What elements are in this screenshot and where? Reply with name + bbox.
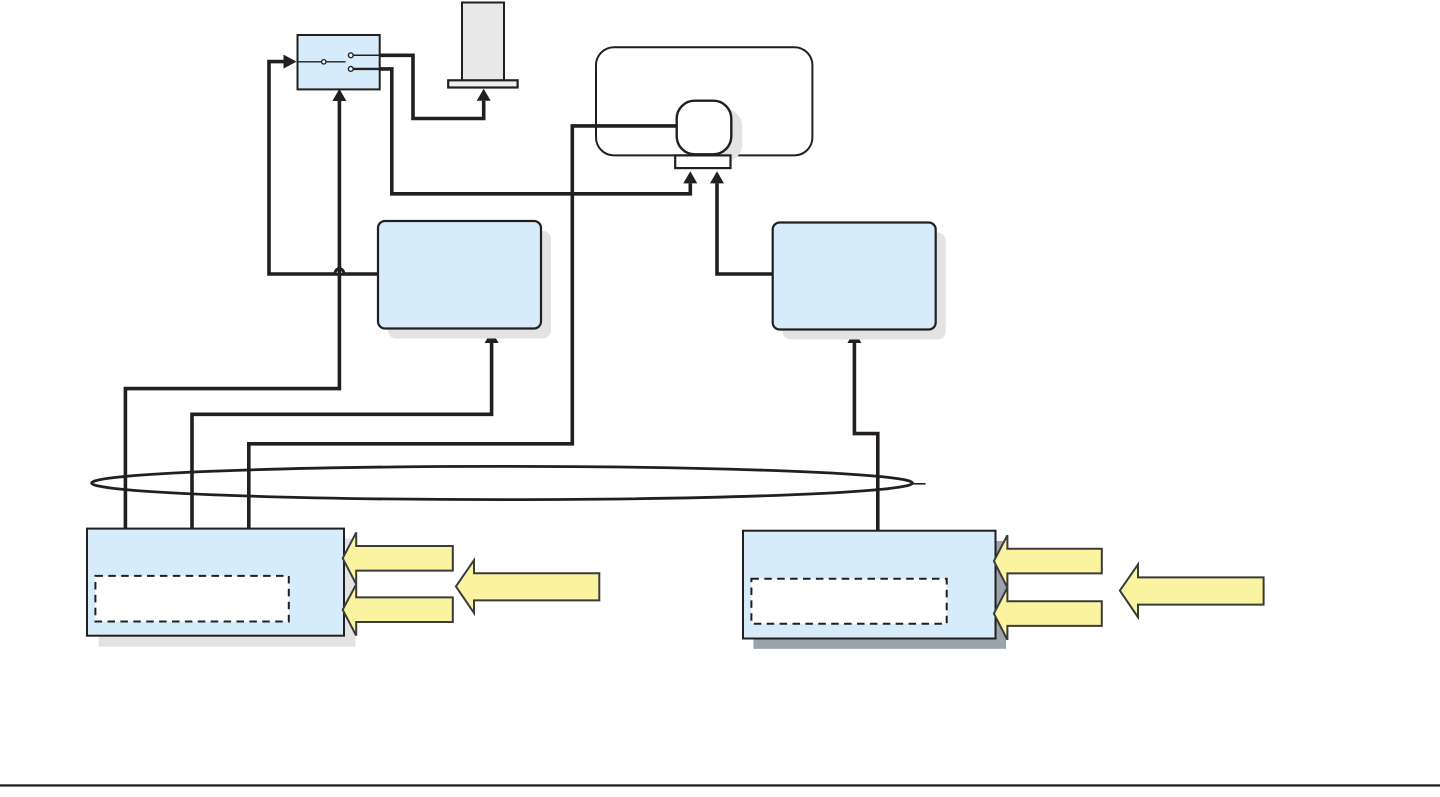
ECU1 dashed label box [95, 576, 288, 622]
wire hop over feedback wire [335, 269, 343, 273]
ECU1 box [87, 529, 344, 636]
yellow input arrow ECU2 upper [994, 535, 1102, 587]
relay upper contact lead [353, 54, 379, 56]
ECU2 dashed label box [751, 579, 946, 624]
bus stub line at right tip [912, 483, 926, 485]
arrowhead into motor base left [683, 171, 697, 183]
wire: ECU1 pin2 up to control unit A [192, 343, 492, 530]
wire: relay lower contact to motor base (left pin) [380, 69, 691, 194]
ECU2 shadow [754, 541, 1007, 649]
arrowhead into heater pedestal [477, 89, 491, 101]
relay box [298, 35, 380, 89]
yellow input arrow ECU1 long [456, 560, 599, 613]
ECU1 shadow [99, 539, 356, 647]
arrowhead into control unit B bottom [847, 331, 861, 343]
relay lower contact circle [348, 67, 353, 72]
heater element (grey tower) [462, 3, 504, 81]
wire: control unit A to relay (feedback loop) [269, 62, 378, 274]
arrowhead into relay left side [284, 55, 297, 69]
ECU2 box [743, 531, 996, 639]
relay lower contact lead [353, 68, 379, 70]
motor (round actuator) [677, 101, 732, 155]
appliance housing (rounded enclosure) [596, 47, 812, 155]
motor shadow [688, 109, 743, 163]
data bus (ellipse) [92, 466, 913, 499]
bottom page rule [0, 784, 1440, 786]
motor base plate [675, 155, 730, 168]
relay pole pivot circle [322, 60, 326, 64]
wire: ECU1 pin1 up to relay coil [125, 101, 339, 530]
heater pedestal [448, 80, 517, 87]
wire: relay upper contact to heater pedestal [380, 55, 484, 118]
yellow input arrow ECU2 lower [994, 588, 1102, 640]
control unit B [773, 223, 936, 330]
control unit A [378, 221, 541, 329]
relay pole line [298, 61, 346, 63]
arrowhead into control unit A bottom [485, 331, 499, 343]
control unit A shadow [388, 231, 551, 339]
wire segment through hop [338, 267, 342, 277]
yellow input arrow ECU1 lower [343, 584, 453, 635]
control unit B shadow [783, 233, 946, 340]
yellow input arrow ECU2 long [1120, 564, 1264, 617]
arrowhead into motor base right [710, 171, 724, 183]
wire: control unit B to motor base (right pin) [717, 183, 773, 274]
relay upper contact circle [348, 53, 353, 58]
wire: ECU1 pin3 up and over to motor [249, 126, 677, 530]
wire: ECU2 up to control unit B (with jog) [854, 343, 877, 532]
yellow input arrow ECU1 upper [343, 532, 453, 584]
arrowhead into relay bottom [332, 89, 346, 101]
